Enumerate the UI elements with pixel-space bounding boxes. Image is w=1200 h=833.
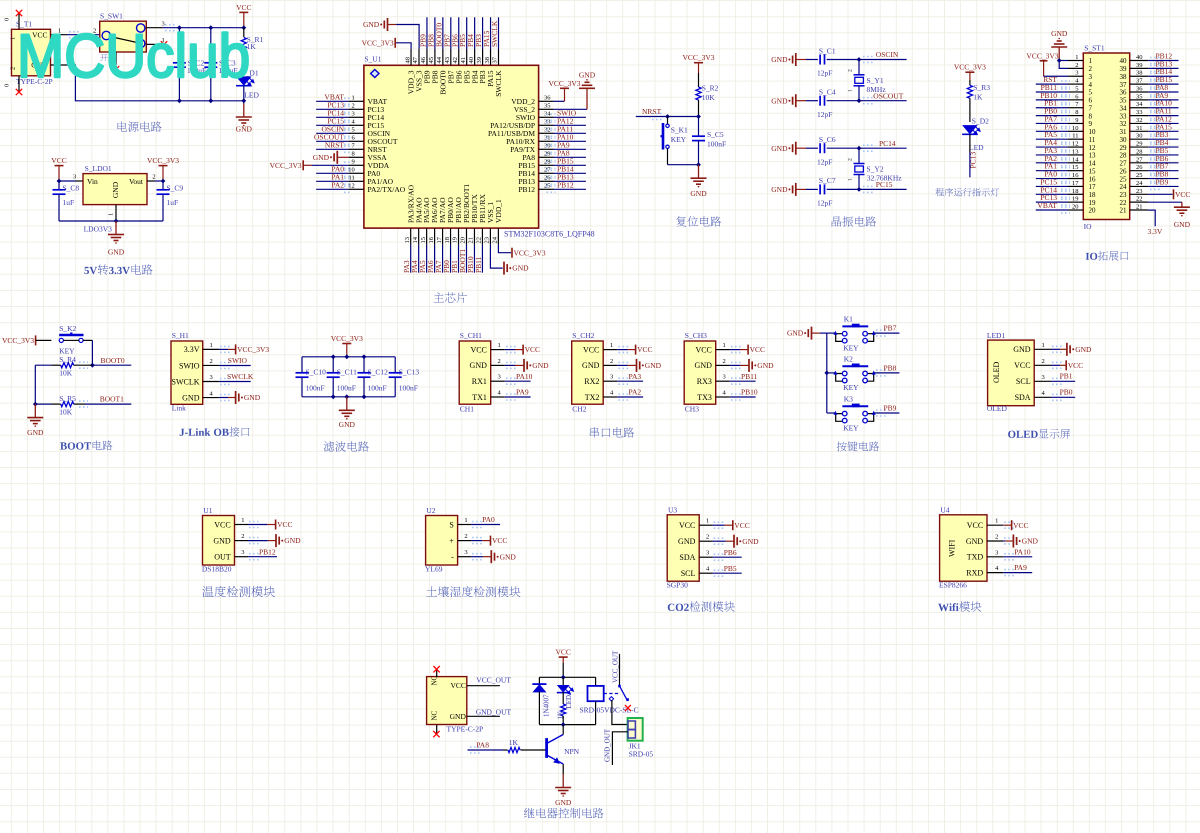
svg-text:18: 18 [1072,188,1079,195]
wire net PA12 at U1 pin 33 [554,124,586,126]
wire net PA3 at CH2 pin3 [617,380,643,382]
svg-text:16: 16 [1089,175,1097,183]
title 程序运行指示灯 [935,188,999,196]
pin 3 TXD of U4 [987,556,1003,558]
pin 44 BOOT0 of U1 [442,49,444,65]
display LED1 OLED [988,340,1035,406]
wire net PA9 at ST1 pin 35 [1148,99,1178,101]
svg-text:3: 3 [706,550,709,557]
svg-text:OLED: OLED [987,404,1008,413]
svg-text:3: 3 [1089,73,1093,81]
junction at crystal OSCIN [857,57,862,62]
module U3 SGP30 [667,515,699,581]
svg-text:S: S [449,520,453,529]
svg-text:CH2: CH2 [572,404,586,413]
power flag VCC at LED1 pin2 [1051,364,1060,366]
svg-text:VCC: VCC [277,520,292,529]
pin 13 of ST1 [1068,154,1083,156]
ground GND buttons [811,327,813,340]
svg-text:25: 25 [1136,172,1143,179]
svg-text:32: 32 [1136,117,1143,124]
svg-text:VCC: VCC [637,345,652,354]
svg-text:1: 1 [498,342,501,349]
svg-text:TX1: TX1 [472,393,487,402]
pin 27 PB14 of U1 [539,172,554,174]
pin 3 - of U2 [458,556,472,558]
wire net PB0 at LED1 pin4 [1051,396,1075,398]
svg-text:SWCLK: SWCLK [227,372,254,381]
svg-text:VCC: VCC [1014,361,1030,370]
svg-text:3.3V: 3.3V [1148,227,1163,236]
pin 12 PA2/TX/AO of U1 [349,188,364,190]
svg-text:24: 24 [1136,180,1143,187]
wire contact to JK1 pin1 [612,700,628,724]
pin 27 of ST1 [1130,162,1149,164]
pin 34 SWIO of U1 [539,116,554,118]
svg-text:3: 3 [723,374,726,381]
pin 2 of LDO to VCC_3V3 [147,180,155,182]
svg-text:KEY: KEY [843,343,859,352]
pin 19 PB1/AO of U1 [458,228,460,245]
svg-text:U1: U1 [203,506,212,515]
svg-text:VCC_3V3: VCC_3V3 [682,53,714,62]
svg-text:OLED: OLED [992,361,1001,383]
wire LED to GND [243,86,245,104]
svg-text:S_C11: S_C11 [337,367,357,376]
svg-text:SDA: SDA [679,553,695,562]
svg-text:BOOT0: BOOT0 [438,70,447,94]
wire net SWIO at H1 pin2 [219,365,251,367]
wire net PB1 at ST1 pin 7 [1036,107,1068,109]
svg-text:PB11: PB11 [741,372,758,381]
wire net PC13 at ST1 pin 19 [1036,201,1068,203]
wire VCC top rail [163,27,244,29]
svg-text:GND: GND [108,248,125,257]
wire key to BOOT0 [83,339,92,341]
wire net PA11 at U1 pin 32 [554,132,586,134]
ground GND at ST1 pins 1-2 [1058,47,1060,61]
power flag VCC at CH2 pin1 [617,349,627,351]
svg-text:Vout: Vout [129,177,144,186]
pin 4 TX1 of CH1 [491,396,505,398]
svg-text:S_R4: S_R4 [59,355,76,364]
svg-text:1N4007: 1N4007 [542,694,550,717]
capacitor S_C11 100nF [332,357,334,373]
svg-text:PB5: PB5 [724,564,737,573]
junction VCC_3V3 at C9 [161,179,166,184]
svg-text:VCC_3V3: VCC_3V3 [954,63,986,72]
pin 32 of ST1 [1130,122,1149,124]
wire net PB12 at U1 pin3 [248,556,277,558]
wire net PB7 at U1 pin 43 [450,17,452,49]
svg-text:GND: GND [771,144,788,153]
pin 5 OSCIN of U1 [349,132,364,134]
svg-text:PB3: PB3 [478,70,487,83]
svg-text:1: 1 [241,517,244,524]
capacitor S_C2 100uF [178,28,180,63]
svg-text:TYPE-C-2P: TYPE-C-2P [447,725,484,734]
wire OSCIN [827,59,907,61]
pin 1 VCC of U4 [987,524,1003,526]
junction top rail at C2 [177,25,182,30]
pin 40 of ST1 [1130,60,1149,62]
svg-text:VCC: VCC [750,345,765,354]
svg-text:LED: LED [969,143,984,152]
resistor S_R2 10K [698,73,700,87]
title 继电器控制电路 [524,808,604,819]
junction top rail VCC [344,354,349,359]
pin 9 VDDA of U1 [349,164,364,166]
svg-text:VCC: VCC [492,536,507,545]
svg-text:38: 38 [1120,73,1128,81]
svg-text:3: 3 [352,111,355,118]
wire GND rail under LDO [59,220,163,222]
wire net PB8 at K2 [874,372,900,374]
svg-text:PB12: PB12 [518,185,535,194]
svg-text:PA3: PA3 [629,372,642,381]
svg-text:GND: GND [1022,537,1039,546]
svg-text:15: 15 [1089,167,1097,175]
svg-text:PA15: PA15 [486,70,495,87]
ground GND at U1 pin8 VSSA [337,156,348,158]
svg-text:1: 1 [10,37,17,40]
svg-text:1: 1 [848,89,854,92]
svg-text:27: 27 [1120,160,1128,168]
svg-text:8: 8 [352,151,355,158]
connector S_ST1 IO header [1083,53,1129,220]
svg-text:40: 40 [1136,54,1143,61]
svg-text:15: 15 [420,237,427,244]
connector T2 TYPE-C-2P output [427,677,467,725]
pin 4 of ST1 [1068,83,1083,85]
wire collector to rail [562,725,564,735]
pin 4 SCL of U3 [699,572,713,574]
connector S_CH3 [684,341,716,404]
svg-text:PB9: PB9 [1156,177,1169,186]
pin 15 of ST1 [1068,170,1083,172]
svg-text:10K: 10K [59,368,72,377]
wire net PA8 base [468,749,504,751]
svg-text:7: 7 [1089,104,1093,112]
svg-text:GND: GND [771,55,788,64]
pin 24 of ST1 [1130,185,1149,187]
svg-text:TXD: TXD [967,553,984,562]
pin 28 of ST1 [1130,154,1149,156]
wire net SWCLK at U1 pin 37 [498,17,500,49]
svg-text:RXD: RXD [966,568,983,577]
svg-text:VCC_3V3: VCC_3V3 [1026,52,1058,61]
wire net PA8 at ST1 pin 36 [1148,91,1178,93]
wire net BOOT1 at U1 pin 20 [465,245,467,273]
wire net PA9 at CH1 pin4 [505,396,531,398]
wire net 3.3V at ST1 pin21 [1148,210,1155,226]
wire net PB15 at U1 pin 28 [554,164,586,166]
svg-text:20: 20 [460,237,467,244]
svg-text:11: 11 [1072,133,1078,140]
pin 46 PB9 of U1 [426,49,428,65]
svg-text:19: 19 [1072,196,1079,203]
power flag VCC_3V3 at U1 pin36 VDD_2 [554,100,565,102]
pin 3 OUT of U1 [235,556,249,558]
wire net PA1 at U1 pin 11 [316,180,348,182]
wire from bus to K1 [827,332,836,334]
svg-text:12pF: 12pF [817,157,832,166]
svg-text:PB9: PB9 [423,70,432,83]
wire GND to ST1 pin2 [1059,61,1068,69]
svg-text:17: 17 [1089,183,1097,191]
svg-text:12pF: 12pF [817,110,832,119]
title 串口电路 [590,427,634,437]
capacitor S_C10 100nF [301,357,303,373]
svg-text:17: 17 [436,236,443,243]
title 温度检测模块 [202,586,275,597]
ground GND at CH3 pin2 [730,364,740,366]
junction bottom rail at LED column [241,98,246,103]
svg-text:YL69: YL69 [425,565,443,574]
power flag VCC_3V3 at U1 pin48 VDD_3 [396,43,411,49]
wire net PA5 at U1 pin 15 [426,245,428,273]
svg-text:18: 18 [1089,191,1097,199]
svg-text:GND: GND [1051,29,1068,38]
junction BOOT0 [90,363,95,368]
wire net BOOT0 [92,364,131,366]
wire net PA10 at ST1 pin 34 [1148,107,1178,109]
pin 12 of ST1 [1068,146,1083,148]
pin 30 of ST1 [1130,138,1149,140]
svg-text:21: 21 [468,237,475,244]
wire net PB8 at ST1 pin 25 [1148,178,1178,180]
pin 11 of ST1 [1068,138,1083,140]
push button K3 KEY [836,414,843,422]
wire net PA2 at ST1 pin 14 [1036,162,1068,164]
svg-text:21: 21 [1120,207,1128,215]
svg-text:45: 45 [428,57,435,64]
wire filter top rail [302,356,395,358]
svg-text:2: 2 [1089,65,1093,73]
pin 22 of ST1 [1130,201,1149,203]
svg-text:-: - [451,553,454,562]
power flag VCC relay [559,656,568,658]
svg-text:2: 2 [1075,62,1078,69]
pin 47 VSS_3 of U1 [418,49,420,65]
svg-text:17: 17 [1072,180,1079,187]
svg-text:2: 2 [241,533,244,540]
title 晶振电路 [832,216,877,227]
svg-text:DS18B20: DS18B20 [202,565,232,574]
svg-text:PA15: PA15 [482,30,491,47]
wire PC14 [827,147,907,149]
connector JK1 SRD-05 [628,718,643,741]
svg-text:SDA: SDA [1015,393,1031,402]
wire net BOOT0 at U1 pin 44 [442,17,444,49]
svg-text:2: 2 [995,534,998,541]
svg-text:37: 37 [492,56,499,63]
svg-text:VCC_OUT: VCC_OUT [612,650,620,683]
svg-text:VCC: VCC [450,681,465,690]
svg-text:PB9: PB9 [884,404,897,413]
pin 3 of S_SW1 [146,27,162,29]
svg-text:31: 31 [1120,128,1128,136]
power flag VCC_3V3 indicator [965,71,974,73]
wire net PA6 at ST1 pin 10 [1036,130,1068,132]
svg-text:22: 22 [1136,196,1143,203]
svg-text:VBAT: VBAT [1037,201,1057,210]
svg-text:14: 14 [412,236,419,243]
wire net PA10 at U1 pin 31 [554,140,586,142]
pin 43 PB7 of U1 [450,49,452,65]
ground GND at S_C6 [795,142,797,155]
svg-text:1: 1 [995,518,998,525]
svg-text:VSS_3: VSS_3 [415,70,424,92]
wire boot left bus [34,365,36,404]
title CO2检测模块 [668,601,735,612]
svg-text:GND: GND [339,420,356,429]
ground GND relay [562,774,564,788]
title 按键电路 [837,441,879,451]
wire net PB1 at U1 pin 19 [458,245,460,273]
wire net PC14 at U1 pin 3 [316,116,348,118]
svg-text:22: 22 [1120,199,1128,207]
svg-text:K1: K1 [844,315,853,324]
wire net BOOT1 [85,403,131,405]
pin 9 of ST1 [1068,122,1083,124]
svg-text:SCL: SCL [1016,377,1031,386]
svg-text:42: 42 [452,57,459,64]
wire net PB5 at U1 pin 41 [466,17,468,49]
svg-text:GND: GND [1075,345,1092,354]
svg-text:S_C13: S_C13 [399,367,420,376]
svg-text:1: 1 [107,213,114,216]
diode D 1N4007 [538,677,540,684]
svg-text:38: 38 [484,57,491,64]
svg-text:25: 25 [1120,175,1128,183]
title 土壤湿度检测模块 [426,586,520,597]
svg-text:S_CH1: S_CH1 [460,331,482,340]
svg-text:VCC: VCC [1175,190,1190,199]
svg-text:S_R5: S_R5 [59,394,76,403]
pin 35 of ST1 [1130,99,1149,101]
svg-text:GND: GND [512,264,529,273]
svg-text:S_C6: S_C6 [819,135,836,144]
svg-text:NPN: NPN [564,747,580,756]
svg-text:PA8: PA8 [476,741,489,750]
svg-text:3: 3 [498,374,501,381]
pin 36 VDD_2 of U1 [539,100,554,102]
svg-text:K3: K3 [844,394,853,403]
svg-text:VCC: VCC [1068,361,1083,370]
svg-text:NRST: NRST [325,140,345,149]
wire net PB9 at ST1 pin 24 [1148,185,1178,187]
svg-text:30: 30 [1136,133,1143,140]
bottom stub of S_SW1 no-connect [115,52,117,69]
pin 5 of ST1 [1068,91,1083,93]
svg-text:NRST: NRST [642,107,662,116]
svg-text:GND_OUT: GND_OUT [603,728,611,762]
capacitor S_C3 100uF [210,28,212,63]
pin 1 VCC of U1 [235,524,249,526]
wire net PB7 at K1 [874,332,900,334]
wire relay top rail [539,676,595,678]
pin 17 PA7/AO of U1 [442,228,444,245]
svg-text:GND: GND [757,361,774,370]
junction top rail C11 [331,354,336,359]
svg-text:100nF: 100nF [707,140,726,149]
wire from bus to K3 [827,412,836,414]
wire net SWCLK at H1 pin3 [219,381,251,383]
pin 2 GND of U4 [987,540,1003,542]
svg-text:GND: GND [182,393,200,402]
resistor S_R5 10K [35,403,51,405]
pin 4 SDA of LED1 [1034,396,1051,398]
svg-text:26: 26 [1136,164,1143,171]
pin 18 PB0/AO of U1 [450,228,452,245]
ground GND at U1 pin23 VSS_1 [490,245,502,268]
svg-text:PC14: PC14 [879,139,896,148]
svg-text:29: 29 [1136,141,1143,148]
wire net OSCIN at U1 pin 5 [316,132,348,134]
push button K2 KEY [836,374,843,382]
wire net PC15 at U1 pin 4 [316,124,348,126]
svg-text:PB8: PB8 [431,70,440,83]
pin 29 PA8 of U1 [539,156,554,158]
svg-text:PB7: PB7 [884,324,897,333]
wire net PB14 at U1 pin 27 [554,172,586,174]
svg-text:S_K1: S_K1 [671,125,688,134]
svg-text:GND: GND [771,96,788,105]
pin 31 of ST1 [1130,130,1149,132]
svg-text:S_C8: S_C8 [63,184,80,193]
pin 2 SWIO of H1 [203,364,219,366]
svg-text:29: 29 [1120,144,1128,152]
svg-text:RX3: RX3 [697,377,712,386]
pin 40 PB4 of U1 [474,49,476,65]
svg-text:3: 3 [464,549,467,556]
module U4 ESP8266 [940,515,987,581]
svg-text:3: 3 [610,374,613,381]
svg-text:1uF: 1uF [63,198,75,207]
pin 1 of S_T1 [51,34,68,36]
svg-text:GND: GND [582,361,600,370]
svg-text:GND: GND [470,361,488,370]
svg-text:GND_OUT: GND_OUT [476,707,512,716]
ground GND power circuit [243,104,245,118]
svg-text:VCC_3V3: VCC_3V3 [270,161,302,170]
wire net VBAT at ST1 pin 20 [1036,209,1068,211]
svg-text:BOOT1: BOOT1 [100,395,124,404]
svg-text:VCC: VCC [1013,521,1028,530]
no-connect stub bottom of S_T1 [18,76,20,92]
svg-text:PB0: PB0 [1060,388,1073,397]
svg-text:5: 5 [352,127,355,134]
regulator S_LDO1 LDO3V3 [83,174,147,205]
pin 1 of S_SW1 no-connect [146,43,162,45]
svg-text:35: 35 [544,103,551,110]
pin 6 OSCOUT of U1 [349,140,364,142]
svg-text:100nF: 100nF [306,383,325,392]
wire net PA2 at CH2 pin4 [617,396,643,398]
svg-text:VCC: VCC [734,521,749,530]
pin 21 PB10/TX of U1 [473,228,475,245]
wire net PB7 at ST1 pin 26 [1148,170,1178,172]
svg-text:27: 27 [1136,156,1143,163]
pin 8 of ST1 [1068,115,1083,117]
svg-text:3: 3 [73,173,76,180]
wire net NRST [636,116,699,118]
pin 23 of ST1 [1130,193,1149,195]
wire net PB12 at U1 pin 25 [554,188,586,190]
wire net PA1 at ST1 pin 15 [1036,170,1068,172]
svg-text:PB12: PB12 [259,547,276,556]
